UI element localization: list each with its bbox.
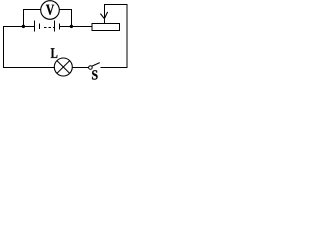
voltmeter V1 right lead horizontal	[59, 9, 72, 11]
wire left vertical	[3, 26, 5, 68]
wire lamp to switch	[72, 67, 89, 69]
voltmeter V1 left lead horizontal	[23, 9, 41, 11]
wire right vertical	[126, 4, 128, 68]
battery dashes	[44, 27, 46, 29]
rheostat R body	[92, 24, 120, 31]
label S	[92, 70, 97, 79]
node junction dot right	[70, 25, 73, 28]
voltmeter V1 left lead vertical	[23, 10, 25, 27]
voltmeter V1 right lead vertical	[70, 10, 72, 27]
wire battery to rheostat	[60, 26, 93, 28]
switch S contact circle	[89, 66, 93, 70]
lamp L1 circle	[54, 58, 72, 76]
battery cell1 long plate	[34, 21, 36, 32]
label L	[51, 48, 58, 58]
rheostat slider arrow shaft	[104, 4, 106, 23]
rheostat slider arrowhead	[100, 14, 104, 19]
battery cell1 short plate	[39, 24, 41, 30]
switch S lever	[92, 63, 100, 67]
battery cell2 short plate	[59, 24, 61, 30]
battery cell2 long plate	[54, 21, 56, 32]
wire bottom-left horizontal	[3, 67, 55, 69]
wire top-right horizontal	[105, 4, 128, 6]
wire top-left horizontal	[3, 26, 35, 28]
node junction dot left	[22, 25, 25, 28]
label V	[46, 5, 54, 15]
voltmeter V1 circle	[41, 1, 60, 20]
wire switch to bottom-right	[100, 67, 127, 69]
lamp L1 cross	[57, 61, 70, 74]
